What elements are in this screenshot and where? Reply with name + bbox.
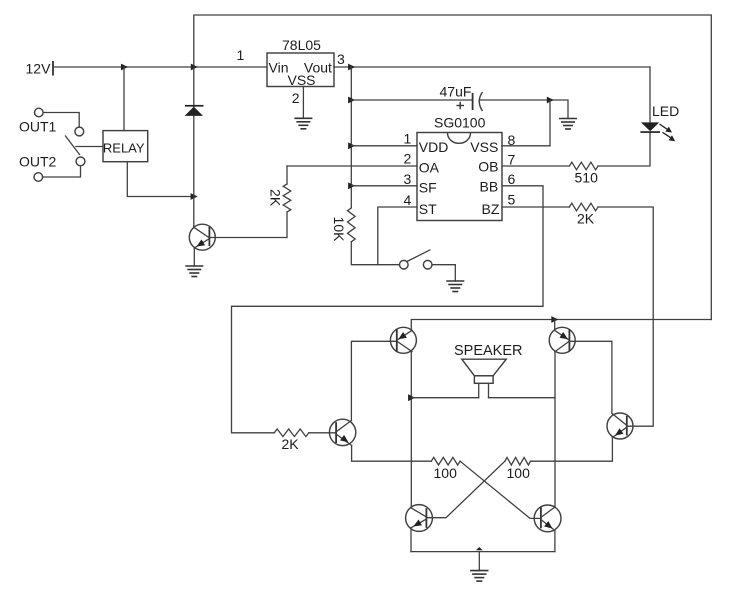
ground symbol at Q1 [185, 266, 203, 277]
svg-text:1: 1 [237, 47, 245, 63]
wire Q6 collector down through speaker node [410, 352, 412, 508]
svg-text:7: 7 [508, 152, 516, 168]
wire Q7 base to Q3 collector [569, 341, 612, 413]
wire cross diagonal to Q4 base [426, 461, 505, 518]
wire bottom rail to ground [478, 552, 480, 571]
svg-text:6: 6 [508, 171, 516, 187]
ground symbol at 47uF [559, 119, 577, 130]
node junction at relay branch [121, 64, 128, 71]
transistor Q1 base bar [208, 227, 210, 246]
svg-text:RELAY: RELAY [103, 141, 145, 156]
wire BZ pin5 to 2K [502, 206, 569, 208]
svg-text:BZ: BZ [482, 201, 500, 217]
node junction Vout at VDD branch [348, 64, 355, 71]
node junction at diode line [191, 64, 198, 71]
transistor Q7 circle PNP right [549, 327, 575, 353]
transistor Q3 emitter with arrow [612, 427, 626, 437]
svg-text:2K: 2K [577, 211, 595, 227]
node junction Q7 emitter at rail [551, 316, 558, 323]
diode D1 anode triangle [185, 107, 203, 116]
svg-text:ST: ST [419, 201, 437, 217]
svg-text:OUT1: OUT1 [19, 119, 57, 135]
node junction 47uF to VSS branch [547, 97, 554, 104]
wire cross diagonal to Q5 base [460, 461, 541, 518]
svg-text:100: 100 [434, 465, 458, 481]
svg-text:3: 3 [404, 171, 412, 187]
node junction bottom rail at ground [476, 547, 483, 550]
capacitor C1 plus sign [457, 102, 465, 109]
transistor Q2 circle [329, 419, 355, 445]
ground symbol at switch [446, 281, 464, 292]
wire VSS pin8 branch vertical [549, 100, 551, 146]
wire Q1 emitter to ground [193, 248, 195, 266]
relay K1 box [103, 131, 148, 162]
svg-text:12V: 12V [26, 61, 52, 77]
wire main vertical 12V to Q1 [193, 67, 195, 228]
resistor R1 2K zigzag relay driver [283, 184, 291, 212]
switch S2 pole contact [400, 260, 409, 269]
svg-text:10K: 10K [331, 217, 347, 243]
svg-text:LED: LED [652, 103, 679, 119]
svg-text:3: 3 [337, 51, 345, 67]
speaker SP1 driver box [474, 376, 493, 384]
transistor Q4 circle [406, 505, 433, 532]
svg-text:2K: 2K [268, 189, 284, 207]
wire Q5 emitter to bottom rail [554, 531, 556, 552]
LED D2 light arrow 2 [663, 132, 676, 141]
transistor Q1 collector [194, 228, 209, 238]
svg-text:Vin: Vin [269, 60, 289, 76]
switch S2 arm [407, 250, 430, 262]
wire ST pin4 to switch [378, 207, 417, 265]
resistor R5 2K zigzag [569, 203, 598, 211]
resistor R7 100 right zigzag [505, 457, 531, 465]
transistor Q2 emitter with arrow [336, 434, 352, 446]
transistor Q7 base bar [568, 329, 570, 351]
IC U1 SG0100 box [417, 133, 502, 221]
switch throw contact upper [75, 127, 84, 136]
node junction at SF pin line [348, 182, 355, 189]
transistor Q5 collector [541, 507, 555, 517]
wire Q7 collector down through speaker node [554, 352, 556, 507]
ground symbol at bottom rail [470, 571, 488, 582]
transistor Q1 emitter with arrow [194, 239, 209, 248]
svg-text:OB: OB [478, 159, 498, 175]
svg-text:SPEAKER: SPEAKER [454, 343, 523, 359]
wire Q4 emitter to bottom rail [410, 528, 412, 552]
transistor Q2 collector [336, 421, 351, 432]
transistor Q7 collector [555, 342, 569, 352]
capacitor C1 negative curved plate [479, 92, 482, 111]
LED D2 cathode bar [640, 131, 660, 133]
switch arm relay contact [66, 136, 80, 155]
transistor Q3 base bar [626, 416, 628, 436]
speaker SP1 cone [462, 359, 506, 376]
wire 47uF left lead [351, 99, 472, 101]
transistor Q4 base bar [425, 508, 427, 528]
wire OB pin7 to 510 [502, 165, 569, 167]
wire 2K top to OA corner [286, 166, 288, 184]
svg-text:2: 2 [292, 90, 300, 106]
capacitor C1 positive plate [472, 93, 474, 110]
svg-text:SF: SF [419, 180, 437, 196]
svg-text:SG0100: SG0100 [434, 115, 486, 131]
svg-text:BB: BB [480, 179, 499, 195]
node 12V terminal tick [52, 61, 54, 76]
switch S2 throw contact [423, 260, 432, 269]
resistor R2 2K zigzag lower left [274, 429, 309, 437]
wire speaker left segment [411, 397, 478, 399]
svg-text:OA: OA [419, 160, 440, 176]
svg-text:VSS: VSS [288, 72, 316, 88]
transistor Q6 emitter with arrow to bar [398, 330, 413, 340]
wire BB pin6 to lower amp [232, 186, 544, 433]
wire relay coil bottom to Q1 collector [127, 162, 194, 197]
node junction at 47uF line [348, 97, 355, 104]
svg-text:2K: 2K [282, 436, 300, 452]
svg-text:100: 100 [507, 465, 531, 481]
transistor Q2 base bar [335, 422, 337, 443]
wire 10K bottom to switch [351, 242, 399, 265]
wire switch to ground [432, 265, 455, 281]
transistor Q6 base bar [396, 329, 398, 351]
wire speaker right segment [489, 397, 556, 399]
transistor Q6 collector [398, 342, 413, 352]
svg-text:47uF: 47uF [440, 84, 472, 100]
speaker SP1 right leg [488, 383, 490, 397]
svg-text:VDD: VDD [419, 139, 449, 155]
wire 2K to Q2 base [309, 432, 336, 434]
node junction at VDD pin line [348, 142, 355, 149]
svg-text:VSS: VSS [470, 139, 498, 155]
wire arm to relay box [76, 146, 103, 148]
wire top rail of amplifier [411, 320, 711, 331]
wire 510 to LED cathode [598, 133, 650, 166]
transistor Q5 base bar [540, 507, 542, 528]
switch OUT2 lower contact [34, 173, 43, 182]
wire Q3 emitter to 100 line right [531, 438, 613, 462]
node junction relay line at diode vertical [191, 193, 198, 200]
diode D1 cathode bar [185, 105, 204, 107]
wire 12V supply line to 78L05 Vin [53, 66, 267, 68]
wire bottom rail [411, 551, 555, 553]
wire VSS pin8 [502, 145, 550, 147]
regulator U2 78L05 box [267, 53, 334, 87]
svg-text:5: 5 [508, 192, 516, 208]
wire 78L05 pin2 to ground [302, 87, 304, 119]
speaker SP1 left leg [478, 383, 480, 397]
wire OA pin2 from 2K resistor [287, 165, 417, 167]
wire 2K to Q3 base [598, 207, 653, 426]
ground symbol under 78L05 [294, 118, 312, 129]
transistor Q4 collector [411, 508, 426, 517]
wire 47uF right lead to ground [480, 100, 569, 119]
resistor R3 10K zigzag [348, 208, 356, 242]
node junction speaker left at Q6 collector line [408, 394, 415, 401]
wire Q2 collector up to Q6 base [351, 341, 396, 420]
switch pole contact lower [76, 157, 85, 166]
wire top border from 12V rail to right border [194, 15, 712, 320]
wire Vout pin3 line to LED [334, 66, 650, 68]
wire VDD vertical branch [350, 67, 352, 208]
transistor Q3 circle [607, 413, 633, 439]
wire Q2 emitter down to 100 line [352, 446, 432, 462]
wire OUT2 contact lead [43, 166, 81, 177]
resistor R4 510 zigzag [569, 162, 598, 170]
svg-text:OUT2: OUT2 [19, 154, 57, 170]
transistor Q7 emitter with arrow to bar [555, 330, 569, 340]
LED D2 light arrow 1 [660, 124, 673, 133]
LED D2 triangle [641, 122, 659, 131]
wire OUT1 contact lead [43, 113, 79, 127]
wire relay coil top [123, 67, 125, 131]
svg-text:510: 510 [575, 170, 599, 186]
transistor Q5 circle [534, 505, 561, 532]
svg-text:2: 2 [404, 151, 412, 167]
transistor Q4 emitter with arrow [411, 519, 426, 528]
transistor Q6 circle PNP left [390, 327, 416, 353]
wire VDD pin1 [351, 145, 417, 147]
wire SF pin3 [351, 185, 417, 187]
resistor R6 100 left zigzag [431, 457, 460, 465]
wire LED anode to Vout line [649, 67, 651, 122]
transistor Q3 collector [612, 413, 627, 425]
switch OUT1 upper contact [35, 108, 44, 117]
wire Q7 emitter to rail [554, 320, 556, 331]
transistor Q1 circle [189, 224, 215, 250]
wire 2K bottom to Q1 base [209, 212, 287, 238]
transistor Q5 emitter with arrow [541, 520, 555, 531]
svg-text:4: 4 [404, 192, 412, 208]
svg-text:1: 1 [404, 131, 412, 147]
svg-text:78L05: 78L05 [282, 37, 321, 53]
IC U1 pin1 notch [448, 133, 471, 143]
